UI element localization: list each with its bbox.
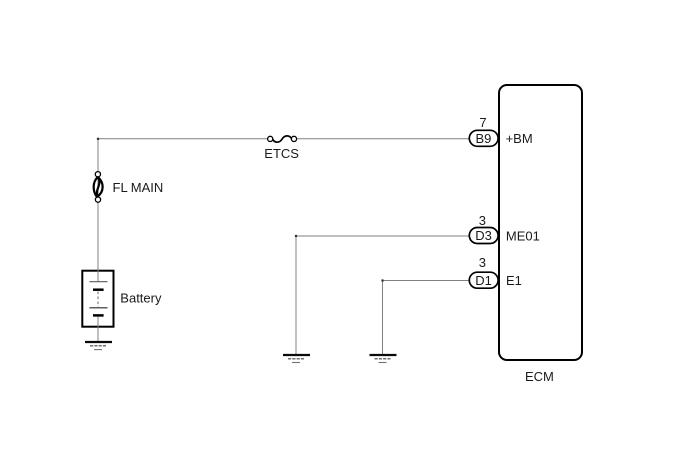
wire E1 vertical bbox=[382, 281, 384, 355]
svg-text:D1: D1 bbox=[475, 273, 492, 288]
battery plate short 2 bbox=[93, 314, 104, 317]
pin D1 connector bbox=[469, 272, 498, 288]
wire battery dashed cell link bbox=[97, 292, 99, 308]
svg-text:E1: E1 bbox=[506, 273, 522, 288]
ground ME01 bbox=[283, 355, 310, 363]
svg-text:3: 3 bbox=[479, 255, 486, 270]
svg-text:+BM: +BM bbox=[506, 131, 533, 146]
battery plate short 1 bbox=[93, 288, 104, 291]
svg-text:FL MAIN: FL MAIN bbox=[113, 180, 164, 195]
battery plate long 2 bbox=[89, 307, 107, 309]
fusible link FL MAIN bbox=[94, 172, 103, 203]
ECM U1 box bbox=[499, 85, 582, 360]
svg-text:Battery: Battery bbox=[120, 290, 162, 305]
fuse ETCS bbox=[268, 136, 297, 142]
pin D3 connector bbox=[469, 228, 498, 244]
svg-text:B9: B9 bbox=[476, 131, 492, 146]
wire ME01 horizontal bbox=[296, 235, 470, 237]
wire top horizontal left of fuse bbox=[98, 138, 269, 140]
svg-text:ETCS: ETCS bbox=[264, 146, 299, 161]
battery B1 box outline bbox=[82, 271, 113, 327]
pin B9 connector bbox=[469, 130, 498, 146]
wire battery to ground bbox=[97, 315, 99, 341]
battery plate long 1 bbox=[89, 281, 107, 283]
wire battery vertical top bbox=[97, 139, 99, 282]
svg-text:3: 3 bbox=[479, 213, 486, 228]
node corner E1 bbox=[381, 279, 383, 281]
svg-text:D3: D3 bbox=[475, 228, 492, 243]
svg-text:ECM: ECM bbox=[525, 369, 554, 384]
svg-text:7: 7 bbox=[479, 115, 486, 130]
ground E1 bbox=[370, 355, 397, 363]
node corner battery wire bbox=[97, 138, 99, 140]
wire ME01 vertical bbox=[295, 236, 297, 355]
node corner ME01 bbox=[295, 235, 297, 237]
wire E1 horizontal bbox=[383, 280, 470, 282]
ground under battery bbox=[85, 342, 112, 350]
wire top horizontal right of fuse bbox=[296, 138, 470, 140]
svg-text:ME01: ME01 bbox=[506, 229, 540, 244]
